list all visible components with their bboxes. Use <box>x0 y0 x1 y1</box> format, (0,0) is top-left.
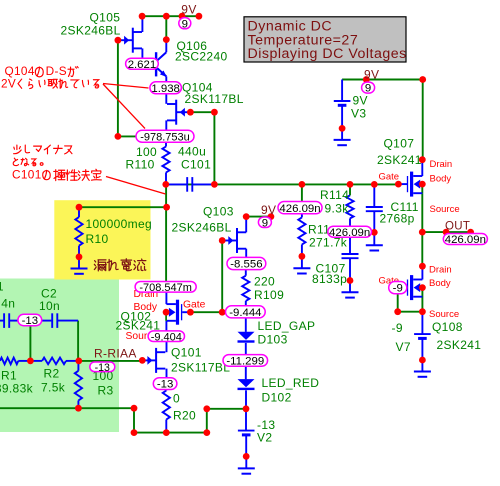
info box: Dynamic DC status <box>244 17 407 62</box>
wire Q103 drain 9V stub <box>246 216 271 218</box>
svg-text:C1: C1 <box>0 280 4 294</box>
node 9V top <box>181 3 196 17</box>
svg-text:R2: R2 <box>44 366 60 380</box>
value -8.556 <box>227 257 266 270</box>
annotation Q104 D-S <box>1 64 99 90</box>
svg-text:-13: -13 <box>22 315 38 327</box>
value 426.09n mid <box>328 226 372 239</box>
annotation line to 1.938 <box>103 84 149 89</box>
svg-text:Drain: Drain <box>430 159 453 170</box>
label Q104 <box>182 80 244 106</box>
pin labels Q107 <box>379 159 460 215</box>
svg-text:D-S: D-S <box>46 64 67 78</box>
label D102 <box>262 376 320 405</box>
svg-text:Gate: Gate <box>379 172 400 183</box>
annotation line to -978.753u <box>103 84 145 129</box>
value -708.547m <box>135 282 196 294</box>
resistor R10 100000meg <box>75 207 82 257</box>
svg-text:-9.404: -9.404 <box>151 331 182 343</box>
label V3 <box>351 93 368 120</box>
wire Q108 body-source tie <box>421 288 423 312</box>
value 9 at Q103 <box>258 217 271 229</box>
resistor R3 100 <box>75 361 82 408</box>
svg-text:R109: R109 <box>254 288 284 302</box>
value 426.09n OUT <box>443 234 487 247</box>
wire bottom jog <box>134 408 246 432</box>
label Q107 <box>377 137 422 167</box>
transistor Q103 JFET symbol <box>222 217 246 258</box>
svg-text:C101: C101 <box>12 167 42 181</box>
wire 9V V3 rail <box>342 79 423 81</box>
wire Q104 gate to node <box>190 111 214 113</box>
svg-text:Q108: Q108 <box>432 320 463 334</box>
battery V3 9V <box>334 80 351 129</box>
svg-text:440u: 440u <box>178 145 206 159</box>
svg-text:100000meg: 100000meg <box>86 217 153 231</box>
diode LED_RED D102 <box>238 366 255 409</box>
wire OUT <box>422 231 470 233</box>
value -978.753u <box>136 130 194 143</box>
highlight region yellow (leakage current R10) <box>54 200 150 279</box>
wire Q107 body-source tie <box>421 184 423 193</box>
capacitor C107 8133p <box>342 237 359 281</box>
svg-text:9.3k: 9.3k <box>325 202 350 216</box>
svg-text:39.83k: 39.83k <box>0 382 34 396</box>
svg-text:-13: -13 <box>95 362 110 374</box>
wire Q103 gate down <box>221 241 223 313</box>
value 2.621 <box>126 58 159 71</box>
wire Q106 collector to rail <box>165 16 167 39</box>
svg-text:-9.444: -9.444 <box>229 307 261 319</box>
wire V3 rail to Q107 drain <box>422 80 424 160</box>
label C101 <box>178 145 211 172</box>
svg-text:R11: R11 <box>308 223 330 237</box>
svg-text:D102: D102 <box>262 391 292 405</box>
svg-text:Body: Body <box>134 302 158 313</box>
svg-text:2SK246BL: 2SK246BL <box>61 24 121 38</box>
value -11.299 <box>223 355 268 368</box>
wire rail to R115 <box>301 184 303 201</box>
svg-text:2SC2240: 2SC2240 <box>175 50 228 64</box>
svg-text:-9: -9 <box>392 321 403 335</box>
transistor Q108 MOSFET symbol <box>398 266 423 300</box>
diode LED_GAP D103 <box>238 318 255 355</box>
resistor R110 100 <box>162 143 169 185</box>
ground under V2 <box>238 456 255 473</box>
svg-text:2.621: 2.621 <box>128 59 157 71</box>
ground under C107 <box>342 281 359 298</box>
svg-text:2SK117BL: 2SK117BL <box>171 360 230 374</box>
label R1 <box>0 369 34 396</box>
node OUT <box>445 220 470 232</box>
annotation line to C101 <box>106 177 166 195</box>
label R10 <box>86 217 153 246</box>
label D103 <box>258 319 316 346</box>
wire C1-C2 node down <box>29 326 31 361</box>
label Q108 <box>432 320 481 352</box>
value 9 at V3 <box>362 82 375 95</box>
svg-text:Drain: Drain <box>429 265 452 276</box>
svg-text:-978.753u: -978.753u <box>140 131 190 143</box>
ground under C111 <box>366 232 383 250</box>
label R115 <box>308 223 348 250</box>
svg-text:-8.556: -8.556 <box>230 259 262 271</box>
svg-text:10n: 10n <box>39 299 60 313</box>
resistor R20 0 <box>163 390 170 433</box>
svg-text:9V: 9V <box>261 203 276 217</box>
svg-text:426.09n: 426.09n <box>445 234 486 246</box>
battery V7 -9 <box>414 312 431 360</box>
transistor Q102 MOSFET symbol <box>166 292 190 331</box>
svg-text:V7: V7 <box>396 340 411 354</box>
svg-text:Q101: Q101 <box>171 345 202 359</box>
ground under V3 <box>334 128 351 145</box>
svg-text:2SK241: 2SK241 <box>377 153 422 167</box>
wire node to mid rail <box>213 112 215 184</box>
value -9.404 <box>148 331 184 343</box>
resistor R109 220 <box>242 270 249 306</box>
label V7 <box>392 321 411 354</box>
svg-text:R110: R110 <box>126 158 155 172</box>
wire 9V top rail <box>142 15 199 17</box>
ground under V7 <box>414 360 431 377</box>
svg-text:Body: Body <box>430 174 452 185</box>
capacitor C1 <box>0 313 19 328</box>
svg-text:1.4n: 1.4n <box>0 296 15 310</box>
svg-text:R10: R10 <box>86 232 109 246</box>
resistor R1 39.83k <box>0 358 30 365</box>
label C1 <box>0 280 15 311</box>
node 9V at V3 <box>364 67 379 81</box>
svg-text:426.09n: 426.09n <box>279 203 320 215</box>
wire R-RIAA to Q101 gate <box>79 360 143 362</box>
svg-text:-708.547m: -708.547m <box>139 282 192 294</box>
wire rail to R114 <box>349 184 351 195</box>
svg-text:9: 9 <box>365 83 371 95</box>
label R3 <box>93 369 114 398</box>
label R20 <box>173 392 196 423</box>
label Q105 <box>61 10 121 37</box>
value 426.09n rail <box>278 202 322 215</box>
ground under R115 <box>293 256 310 273</box>
annotation leakage current <box>94 259 145 271</box>
wire Q107 source down to OUT node <box>421 193 423 232</box>
svg-text:LED_GAP: LED_GAP <box>258 319 316 333</box>
label V2 <box>257 418 275 445</box>
svg-text:Source: Source <box>429 309 459 320</box>
svg-text:2SK246BL: 2SK246BL <box>172 220 232 234</box>
svg-text:LED_RED: LED_RED <box>262 376 320 390</box>
capacitor C2 10n <box>41 313 78 328</box>
svg-text:9V: 9V <box>364 67 379 81</box>
wire R10 tap <box>79 206 167 208</box>
transistor Q105 JFET symbol <box>118 16 142 58</box>
pin labels Q108 <box>379 265 460 320</box>
svg-text:220: 220 <box>254 275 275 289</box>
svg-text:9V: 9V <box>181 3 196 17</box>
label Q102 <box>116 310 161 333</box>
capacitor C111 2768p <box>366 184 383 232</box>
label C111 <box>380 200 419 226</box>
ground under R10 <box>71 257 88 274</box>
svg-text:Source: Source <box>430 204 460 215</box>
resistor R2 7.5k <box>30 358 78 365</box>
svg-text:R20: R20 <box>173 409 196 423</box>
svg-text:Gate: Gate <box>183 300 206 311</box>
wire Q105 gate down-left <box>118 40 166 136</box>
annotation sukoshi minus <box>12 145 101 181</box>
svg-text:Q107: Q107 <box>384 137 415 151</box>
transistor Q106 BJT symbol <box>142 40 166 82</box>
highlight region green (RIAA input network) <box>0 279 119 433</box>
label Q101 <box>171 345 230 374</box>
svg-text:426.09n: 426.09n <box>329 227 370 239</box>
svg-text:Q105: Q105 <box>90 10 121 24</box>
node 9V at Q103 <box>261 203 276 217</box>
label Q103 <box>172 205 234 235</box>
svg-text:2SK241: 2SK241 <box>437 338 482 352</box>
value 1.938 <box>150 82 182 95</box>
svg-text:8133p: 8133p <box>312 272 347 286</box>
svg-text:R1: R1 <box>1 369 17 383</box>
value -9.444 <box>226 306 266 319</box>
label R109 <box>254 275 284 302</box>
value -9 at Q108 <box>389 282 407 295</box>
svg-text:0: 0 <box>173 392 180 406</box>
capacitor C101 440u <box>166 177 215 192</box>
battery V2 -13 <box>238 409 255 457</box>
svg-text:2V: 2V <box>1 76 16 90</box>
value -13 at R-RIAA <box>90 362 115 374</box>
transistor Q101 JFET symbol <box>142 342 166 378</box>
svg-text:Q103: Q103 <box>203 205 234 219</box>
svg-text:Body: Body <box>429 278 451 289</box>
label C107 <box>312 262 347 286</box>
svg-text:R3: R3 <box>98 384 114 398</box>
label R110 <box>126 145 158 172</box>
wire gate feedback node <box>190 311 245 313</box>
label C2 <box>39 287 60 314</box>
wire mid rail <box>166 183 399 185</box>
transistor Q107 MOSFET symbol <box>398 160 422 197</box>
svg-text:2768p: 2768p <box>380 212 415 226</box>
svg-text:2SK117BL: 2SK117BL <box>185 92 244 106</box>
value -13 at Q101 <box>153 378 177 391</box>
pin labels Q102 <box>126 289 206 342</box>
svg-text:7.5k: 7.5k <box>41 380 66 394</box>
svg-text:C101: C101 <box>181 158 211 172</box>
wire Q108 gate tie down <box>398 288 423 312</box>
svg-text:9V: 9V <box>353 93 368 107</box>
wire mid vertical to Q102 drain <box>165 184 167 281</box>
transistor Q104 JFET symbol <box>166 94 190 131</box>
label Q106 <box>175 39 228 64</box>
svg-text:-9: -9 <box>393 283 403 295</box>
node R-RIAA <box>94 346 137 360</box>
svg-text:D103: D103 <box>258 333 288 347</box>
wire C2 out down <box>77 321 79 361</box>
svg-text:OUT: OUT <box>445 220 470 232</box>
svg-text:-11.299: -11.299 <box>226 356 264 368</box>
svg-text:-13: -13 <box>157 379 173 391</box>
svg-text:R114: R114 <box>320 188 349 202</box>
wire bottom left rail <box>0 407 134 409</box>
label R114 <box>320 188 349 215</box>
resistor R114 39.3k <box>346 195 353 226</box>
value 9 top <box>179 18 191 31</box>
label R2 <box>41 366 66 394</box>
svg-text:9: 9 <box>182 18 188 30</box>
svg-text:V3: V3 <box>351 106 366 120</box>
svg-text:R-RIAA: R-RIAA <box>94 346 137 360</box>
svg-text:Displaying DC Voltages: Displaying DC Voltages <box>248 46 407 62</box>
wire OUT node to Q108 drain <box>421 232 423 266</box>
svg-text:1.938: 1.938 <box>151 83 180 95</box>
svg-text:9: 9 <box>262 217 268 229</box>
value -13 at C1 <box>18 314 42 327</box>
resistor R115 271.7k <box>298 214 305 256</box>
svg-text:V2: V2 <box>257 431 272 445</box>
